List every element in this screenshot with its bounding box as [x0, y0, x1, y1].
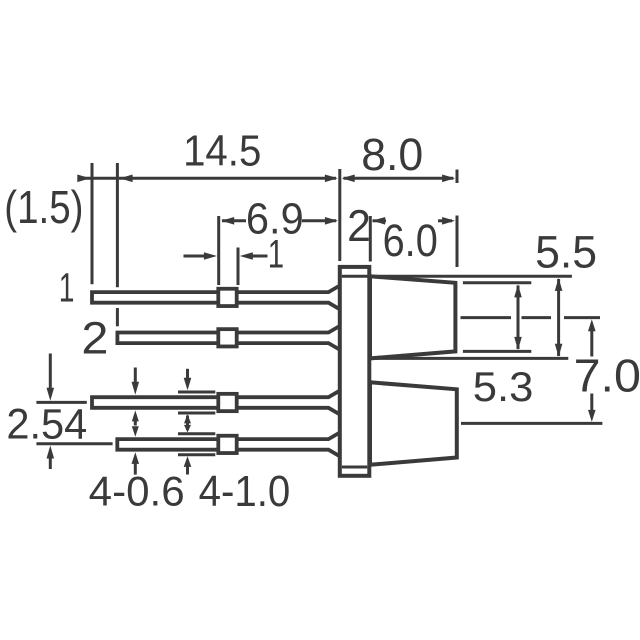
- extension line B (lead 2 tip, x=117.4) upper segment: [116, 163, 119, 287]
- dim 4-0.6 upper leader: [134, 368, 137, 384]
- dim 7.0 line lower segment: [590, 394, 593, 413]
- tab3 bottom extension: [178, 412, 215, 415]
- lead 3: [92, 391, 339, 414]
- dimension line 6.0 right segment: [438, 219, 452, 222]
- dim 4-0.6 lower leader: [134, 464, 137, 475]
- tab on lead 3: [218, 394, 236, 411]
- dim 5.3 line: [517, 286, 520, 350]
- bottom lens body: [370, 382, 457, 465]
- dim 2.54 upper leader: [49, 354, 52, 390]
- arrowhead 6.9 left at tab ext1: [221, 217, 234, 225]
- dim 4-1.0 lower leader: [186, 466, 189, 475]
- arrowhead 0.6 mid down: [132, 426, 139, 437]
- top lens centerline seg2: [522, 316, 552, 319]
- arrowhead 0.6 bottom: [132, 452, 140, 464]
- top lens centerline seg1: [461, 316, 512, 319]
- extension line B lower segment: [116, 308, 119, 326]
- top lens centerline seg3: [564, 316, 600, 319]
- tab on lead 1: [218, 289, 236, 306]
- dimension line 8.0: [344, 177, 454, 180]
- extension line tab left (x=218.7): [217, 216, 220, 285]
- svg-text:14.5: 14.5: [183, 127, 261, 176]
- arrowhead 14.5 left at B: [120, 175, 133, 183]
- svg-text:2: 2: [81, 312, 108, 363]
- svg-text:5.5: 5.5: [535, 227, 597, 278]
- flange inner bottom line: [342, 466, 368, 469]
- arrowhead 1 left outside: [204, 252, 217, 260]
- dimension line 1 right tail: [252, 255, 268, 258]
- extension line lens top tip (5.3 top): [463, 281, 531, 284]
- dim 2.54 upper extension: [36, 401, 86, 404]
- extension tick D (lens right, for 8.0): [456, 170, 459, 184]
- tab4 bottom extension: [178, 453, 215, 456]
- dim 4-1.0 middle leader: [186, 416, 189, 431]
- svg-text:2: 2: [347, 202, 371, 251]
- lead 2: [117, 327, 338, 350]
- arrowhead 1.0 bottom: [184, 456, 192, 467]
- arrowhead 7.0 top: [588, 319, 596, 331]
- dim 2.54 lower leader: [49, 457, 52, 470]
- tab on lead 4: [218, 436, 236, 453]
- arrowhead 8.0 left at C: [342, 175, 355, 183]
- extension line lens bottom tip (5.3 bottom): [463, 350, 531, 353]
- arrowhead 2.54 top: [47, 388, 55, 401]
- arrowhead 6.9/2 right at C: [325, 217, 338, 225]
- arrowhead 7.0 bottom: [588, 410, 596, 422]
- extension line lens right (for 6.0): [456, 216, 459, 268]
- arrowhead 5.3 top: [514, 284, 522, 297]
- arrowhead 1.5 right at A: [77, 175, 90, 183]
- dim 5.5 line: [557, 279, 560, 356]
- tab on lead 2: [218, 329, 236, 346]
- arrowhead 1.0 top: [184, 378, 192, 391]
- arrowhead 2/6.0 left at flange right ext: [372, 217, 385, 225]
- extension line tab right (x=238): [237, 248, 240, 286]
- dim 7.0 line upper segment: [590, 330, 593, 357]
- dim 4-1.0 upper leader: [186, 369, 189, 379]
- arrowhead 1.0 mid down: [184, 425, 191, 433]
- tab3 top extension: [178, 391, 215, 394]
- svg-text:4-1.0: 4-1.0: [199, 468, 291, 516]
- extension line A (lead 1 tip, x=92): [91, 163, 94, 284]
- arrowhead 6.0 right at lens right ext: [442, 217, 455, 225]
- arrowhead 0.6 mid up: [132, 410, 139, 421]
- extension line lens bottom base (5.5 bottom): [371, 357, 568, 360]
- dim 4-0.6 middle leader: [134, 420, 137, 426]
- dim 2.54 lower extension: [36, 442, 112, 445]
- arrowhead 1.0 mid up: [184, 414, 191, 423]
- dimension line 6.9 right segment: [302, 219, 336, 222]
- bottom lens centerline: [461, 422, 602, 425]
- arrowhead 14.5 right at C: [325, 175, 338, 183]
- svg-text:5.3: 5.3: [473, 363, 534, 410]
- flange body: [340, 267, 370, 476]
- arrowhead 8.0 right at D: [442, 175, 455, 183]
- svg-text:8.0: 8.0: [361, 129, 423, 180]
- dimension line 1 left tail: [184, 255, 206, 258]
- lead 1: [92, 286, 339, 309]
- extension line C (flange left, x=339.8): [338, 169, 341, 261]
- arrowhead 1 right outside: [240, 252, 253, 260]
- dimension line 6.9 left segment: [222, 219, 246, 222]
- arrowhead 5.3 bottom: [514, 337, 522, 350]
- svg-text:2.54: 2.54: [6, 401, 87, 448]
- top lens body: [370, 276, 455, 358]
- svg-text:1: 1: [59, 265, 75, 311]
- extension line lens top base (5.5 top) also flange inner top: [342, 275, 572, 278]
- svg-text:1: 1: [268, 232, 284, 276]
- extension line flange right (x=370.3): [369, 216, 372, 262]
- arrowhead 2.54 bottom: [47, 446, 55, 459]
- lead 4: [117, 433, 338, 456]
- arrowhead 5.5 top: [555, 278, 563, 291]
- dimension line 2 right arrow tail: [373, 219, 387, 222]
- arrowhead 5.5 bottom: [555, 344, 563, 357]
- svg-text:7.0: 7.0: [574, 350, 640, 402]
- svg-text:4-0.6: 4-0.6: [89, 468, 185, 515]
- svg-text:6.0: 6.0: [383, 215, 438, 266]
- arrowhead 0.6 top: [132, 382, 140, 395]
- svg-text:(1.5): (1.5): [4, 181, 83, 233]
- tab4 top extension: [178, 432, 215, 435]
- dimension line 1.5/14.5 (y=178.3): [78, 177, 337, 180]
